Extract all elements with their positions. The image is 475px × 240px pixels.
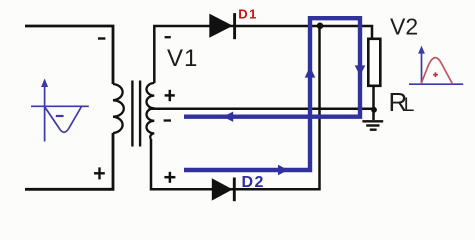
svg-text:V2: V2 <box>390 14 418 40</box>
svg-text:D1: D1 <box>238 7 258 22</box>
svg-text:L: L <box>404 95 415 116</box>
svg-text:D2: D2 <box>242 174 265 191</box>
svg-text:V1: V1 <box>167 45 198 72</box>
